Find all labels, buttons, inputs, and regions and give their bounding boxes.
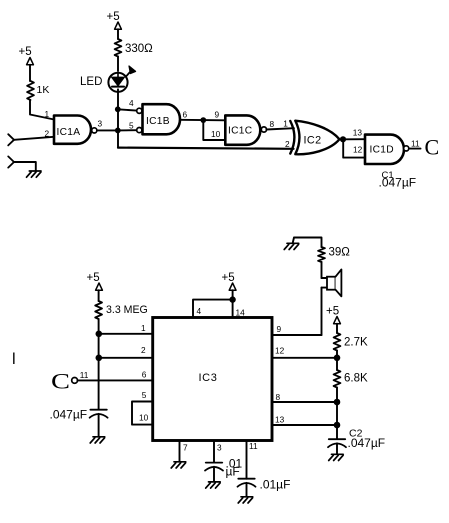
svg-text:4: 4 xyxy=(197,306,202,316)
svg-text:IC2: IC2 xyxy=(304,135,322,147)
svg-text:IC1C: IC1C xyxy=(228,126,252,137)
svg-text:8: 8 xyxy=(270,119,275,129)
svg-text:3: 3 xyxy=(98,119,103,129)
svg-text:.047µF: .047µF xyxy=(348,436,386,450)
svg-text:.047µF: .047µF xyxy=(50,408,88,422)
svg-text:9: 9 xyxy=(277,324,282,334)
svg-text:4: 4 xyxy=(129,98,134,108)
svg-text:2: 2 xyxy=(141,345,146,355)
svg-text:12: 12 xyxy=(275,346,285,356)
svg-text:IC1B: IC1B xyxy=(146,116,170,127)
svg-text:12: 12 xyxy=(353,145,363,155)
svg-text:39Ω: 39Ω xyxy=(329,247,351,259)
svg-text:+5: +5 xyxy=(87,272,100,284)
svg-text:IC3: IC3 xyxy=(199,372,218,384)
svg-text:.047µF: .047µF xyxy=(379,176,417,190)
svg-text:1K: 1K xyxy=(37,84,50,96)
svg-text:C: C xyxy=(51,369,70,394)
svg-text:2: 2 xyxy=(45,129,50,139)
svg-text:1: 1 xyxy=(141,323,146,333)
svg-text:5: 5 xyxy=(129,120,134,130)
svg-text:+5: +5 xyxy=(326,306,339,318)
svg-text:11: 11 xyxy=(80,370,89,380)
svg-text:2: 2 xyxy=(285,139,290,149)
svg-text:+5: +5 xyxy=(107,11,120,23)
svg-text:11: 11 xyxy=(249,441,258,451)
svg-text:5: 5 xyxy=(142,390,147,400)
svg-text:µF: µF xyxy=(226,465,240,479)
svg-text:10: 10 xyxy=(139,413,149,423)
svg-text:9: 9 xyxy=(215,109,220,119)
svg-text:.01µF: .01µF xyxy=(260,478,291,492)
svg-text:3.3 MEG: 3.3 MEG xyxy=(106,304,148,316)
svg-text:1: 1 xyxy=(45,109,50,119)
svg-text:13: 13 xyxy=(275,415,285,425)
svg-text:8: 8 xyxy=(276,392,281,402)
svg-text:6: 6 xyxy=(142,370,147,380)
svg-text:10: 10 xyxy=(211,129,221,139)
svg-text:7: 7 xyxy=(183,443,188,453)
svg-text:IC1A: IC1A xyxy=(57,127,81,138)
svg-text:11: 11 xyxy=(411,138,420,148)
svg-text:+5: +5 xyxy=(19,46,32,58)
svg-text:C: C xyxy=(425,135,440,160)
svg-text:2.7K: 2.7K xyxy=(344,337,368,349)
svg-text:13: 13 xyxy=(353,128,363,138)
svg-text:IC1D: IC1D xyxy=(370,145,394,156)
svg-text:3: 3 xyxy=(217,443,222,453)
svg-text:6.8K: 6.8K xyxy=(344,373,368,385)
svg-text:6: 6 xyxy=(183,110,188,120)
svg-text:+5: +5 xyxy=(222,272,235,284)
svg-text:LED: LED xyxy=(80,76,102,88)
svg-text:14: 14 xyxy=(236,308,246,318)
svg-text:330Ω: 330Ω xyxy=(125,43,153,55)
svg-text:1: 1 xyxy=(283,119,288,129)
